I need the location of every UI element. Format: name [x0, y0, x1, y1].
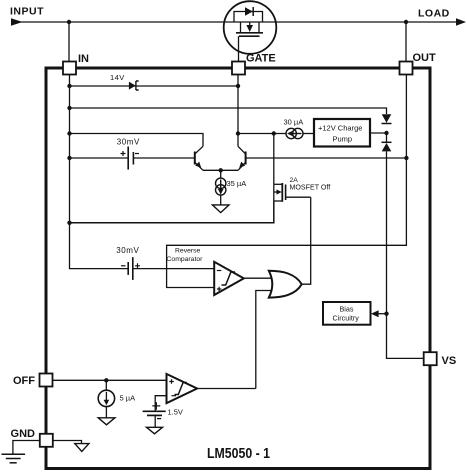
transistor Q3 (right NPN of sense pair) — [238, 146, 246, 170]
wire: B2 to reverse comparator minus input — [133, 268, 214, 270]
ground (35uA source) — [212, 205, 229, 213]
wire: gate rail right part toward charge pump — [238, 133, 287, 135]
wire: OUT sense net (down right side to reverse comparator +) — [167, 75, 409, 288]
node: 5uA tap on OFF line — [104, 378, 108, 382]
svg-text:INPUT: INPUT — [10, 6, 44, 18]
svg-text:IN: IN — [78, 53, 89, 65]
svg-text:GATE: GATE — [246, 53, 276, 65]
diode D1 (top, anode up) — [382, 114, 392, 123]
diode D3: 14V zener clamp — [129, 81, 139, 90]
node: bias circuitry tap on VS net — [384, 312, 388, 316]
wire: common emitter join — [203, 168, 238, 178]
svg-text:LM5050 - 1: LM5050 - 1 — [207, 445, 270, 462]
pin VS — [424, 352, 437, 365]
wire: arrow into bias circuitry — [378, 313, 387, 315]
Q1 body arrow — [249, 22, 251, 25]
arrowhead at LOAD end — [456, 18, 466, 26]
wire: OR gate output up to 2A FET gate — [302, 197, 311, 284]
svg-text:1.5V: 1.5V — [168, 407, 183, 416]
wire: OFF comparator output to OR riser — [197, 388, 256, 390]
wire: charge pump output — [370, 132, 387, 134]
pin OUT — [400, 62, 413, 75]
node: charge pump output junction — [384, 131, 388, 135]
wire: riser from LOAD rail to OUT pin — [405, 22, 407, 62]
comparator U3: reverse comparator — [214, 262, 244, 295]
transistor Q2 (left NPN of sense pair) — [195, 146, 203, 170]
svg-text:30 µA: 30 µA — [284, 118, 304, 127]
svg-text:Circuitry: Circuitry — [333, 314, 360, 323]
wire: OFF pin to comparator + input — [53, 379, 167, 381]
svg-text:+12V Charge: +12V Charge — [318, 124, 362, 133]
svg-text:30mV: 30mV — [116, 246, 139, 255]
Q1 body-diode branch — [234, 12, 263, 23]
node: INPUT junction above IN pin — [67, 20, 71, 24]
Q1 source stub — [258, 22, 260, 33]
svg-text:Comparator: Comparator — [167, 256, 204, 263]
wire: GND pin internal ground — [53, 441, 82, 444]
arrowhead on INPUT line — [11, 18, 23, 25]
svg-text:OFF: OFF — [13, 375, 35, 387]
wire: reverse comparator output to OR gate — [244, 277, 273, 279]
transistor Q1: external pass N-MOSFET with body diode (circle symbol) — [224, 1, 277, 61]
node on IN net at 2A-FET return rail — [67, 221, 71, 225]
wire: gate drive line from GATE pin down — [237, 75, 239, 147]
node on IN net at 30mV rail — [67, 156, 71, 160]
svg-text:14V: 14V — [110, 73, 125, 82]
svg-text:Pump: Pump — [333, 135, 353, 144]
battery B1 30mV (top, + left) — [121, 147, 140, 170]
bias circuitry box U2 — [323, 302, 371, 325]
svg-text:MOSFET Off: MOSFET Off — [290, 184, 331, 192]
Q1 channel bar — [236, 32, 263, 34]
node: LOAD junction above OUT pin — [404, 20, 408, 24]
IC block border LM5050-1 — [46, 68, 430, 469]
svg-text:GND: GND — [11, 428, 36, 440]
current source I3 5uA — [98, 380, 114, 418]
wire: INPUT-to-LOAD top rail — [11, 21, 459, 23]
charge pump U1 — [314, 119, 370, 147]
comparator U5: OFF comparator — [167, 374, 198, 403]
wire: IN sense vertical net — [70, 75, 129, 269]
current source I2 30uA — [286, 128, 303, 138]
pin GATE — [232, 62, 245, 75]
node: 14V rail to gate line — [236, 84, 240, 88]
battery B2 30mV (reverse threshold, - left) — [121, 257, 140, 280]
svg-text:30mV: 30mV — [117, 137, 140, 146]
wire: 14V clamp rail — [70, 85, 239, 87]
svg-text:Reverse: Reverse — [175, 247, 201, 254]
node on IN net at collector rail — [67, 131, 71, 135]
gate U4: OR gate — [269, 271, 302, 298]
wire: VS net vertical — [387, 123, 424, 359]
svg-text:VS: VS — [442, 355, 457, 367]
svg-text:LOAD: LOAD — [418, 8, 450, 20]
ground: external system ground bars — [2, 454, 26, 463]
transistor Q4: 2A gate pulldown MOSFET — [274, 134, 311, 202]
wire: 2A FET source return rail to IN net — [70, 201, 274, 223]
node: 2A FET drain tap — [272, 131, 276, 135]
wire: minus input of OFF comparator to 1.5V ref — [155, 396, 166, 412]
wire: riser from INPUT rail to IN pin — [68, 22, 70, 62]
svg-text:Bias: Bias — [340, 305, 354, 314]
node on IN net at charge-pump feed rail — [67, 106, 71, 110]
pin OFF — [40, 374, 53, 387]
pin GND — [40, 434, 53, 447]
wire: charge-pump feed rail to top diode — [70, 108, 387, 114]
ground (internal GND net) — [75, 444, 89, 452]
svg-text:5 µA: 5 µA — [120, 394, 136, 403]
Q1 drain stub — [240, 22, 242, 33]
wire: gate rail (collector) left part to Q2 collector — [70, 134, 204, 147]
svg-text:OUT: OUT — [413, 52, 437, 64]
node on IN net at 14V rail — [67, 84, 71, 88]
svg-text:35 µA: 35 µA — [227, 179, 247, 188]
wire: 30mV offset rail (IN side) — [70, 157, 129, 159]
ground (5uA source) — [98, 418, 115, 425]
battery B3 1.5V reference — [143, 402, 166, 427]
Q1 gate lead down to GATE pin — [238, 36, 240, 61]
wire: OR gate bottom input riser from OFF comparator — [256, 291, 272, 389]
Q1 gate bar — [239, 35, 260, 37]
wire: GND pin external ground — [13, 441, 40, 455]
current source I1 35uA — [216, 178, 226, 205]
wire: right base rail to OUT sense — [246, 157, 406, 159]
ground (1.5V ref) — [147, 427, 163, 434]
diode D2 (bottom, anode down) — [382, 142, 392, 151]
pin IN — [63, 62, 76, 75]
